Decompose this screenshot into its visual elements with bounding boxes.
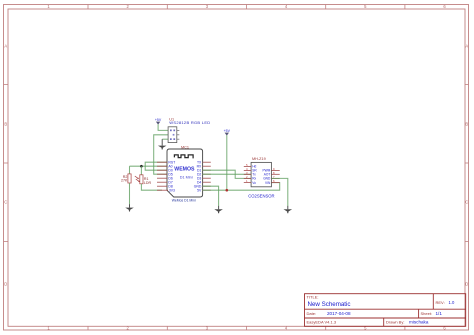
svg-text:A: A xyxy=(4,44,7,49)
wire A0 to R2 top xyxy=(129,166,131,174)
connector U1 xyxy=(168,127,179,143)
wire D1 to sensor Rx xyxy=(203,170,252,178)
svg-text:B: B xyxy=(465,122,468,127)
svg-text:D: D xyxy=(4,282,7,287)
WEMOS right pins xyxy=(203,162,211,190)
svg-text:D1 Mini: D1 Mini xyxy=(180,176,193,180)
wire D2 to sensor Tx xyxy=(203,173,252,175)
svg-text:New Schematic: New Schematic xyxy=(308,301,351,308)
wire sensor GND to ground xyxy=(271,178,287,206)
wire junction to LDR top xyxy=(140,166,142,175)
svg-text:MC1: MC1 xyxy=(181,145,189,149)
svg-text:Drawn By:: Drawn By: xyxy=(386,319,404,324)
svg-text:+5V: +5V xyxy=(155,118,162,122)
svg-text:A: A xyxy=(465,44,468,49)
svg-text:TITLE:: TITLE: xyxy=(307,295,319,300)
sensor left pins xyxy=(244,166,251,182)
title block text xyxy=(307,295,445,325)
svg-text:Vo: Vo xyxy=(252,181,256,185)
svg-text:C: C xyxy=(465,200,468,205)
power flag +5V (RGB LED) xyxy=(155,118,162,125)
MCU MC1 WEMOS D1 mini xyxy=(167,149,203,197)
svg-text:MH-Z19: MH-Z19 xyxy=(252,157,266,161)
sensor right pin numbers xyxy=(273,167,275,183)
title block xyxy=(305,294,466,327)
svg-text:WS2812B RGB LED: WS2812B RGB LED xyxy=(169,120,210,125)
svg-text:mischaka: mischaka xyxy=(409,319,429,324)
WEMOS left pins xyxy=(157,162,168,190)
node A0 junction xyxy=(140,165,143,168)
svg-text:WEMOS: WEMOS xyxy=(174,167,195,173)
wire GND wemos to ground xyxy=(203,186,219,206)
svg-text:D: D xyxy=(465,282,468,287)
photoresistor R1 xyxy=(135,175,152,185)
svg-text:B: B xyxy=(4,122,7,127)
svg-text:C: C xyxy=(4,200,7,205)
svg-text:REV:: REV: xyxy=(436,300,445,305)
svg-text:3V3: 3V3 xyxy=(169,189,175,193)
wire LDR bottom to 3V3 xyxy=(141,184,162,190)
wire 5V net xyxy=(203,183,280,191)
antenna xyxy=(174,155,193,159)
svg-text:1.0: 1.0 xyxy=(449,300,455,305)
ground (wemos) xyxy=(214,206,223,213)
svg-text:+5V: +5V xyxy=(224,129,231,133)
sensor left pin numbers xyxy=(246,163,248,183)
svg-text:2017-04-08: 2017-04-08 xyxy=(327,311,351,316)
svg-text:27K: 27K xyxy=(121,179,128,183)
wire U1 pin3 to ground xyxy=(162,138,168,140)
sensor right pins xyxy=(271,170,279,182)
wire RST-D0 loop xyxy=(145,162,167,170)
svg-text:5V: 5V xyxy=(197,189,202,193)
wire U1 pin2 to D5 xyxy=(154,135,168,174)
resistor R2 xyxy=(121,174,131,183)
ground (RGB LED) xyxy=(158,139,167,149)
wire +5V to U1 pin1 xyxy=(158,124,168,130)
svg-text:Sheet:: Sheet: xyxy=(421,311,433,316)
svg-text:LDR: LDR xyxy=(144,181,152,185)
sensor MH-Z19 xyxy=(251,162,271,186)
power flag +5V (sensor) xyxy=(224,129,231,136)
wire A0 net xyxy=(130,165,168,167)
ground (sensor) xyxy=(284,206,293,213)
svg-text:WeMos D1 Mini: WeMos D1 Mini xyxy=(172,198,196,202)
ground (R2) xyxy=(125,204,134,211)
svg-text:EasyEDA V4.1.3: EasyEDA V4.1.3 xyxy=(307,319,337,324)
svg-text:VIN: VIN xyxy=(265,181,271,185)
svg-text:CO2SENSOR: CO2SENSOR xyxy=(248,194,274,199)
wire +5V down to 5V net xyxy=(226,135,228,190)
wire R2 bottom to ground xyxy=(129,183,131,204)
node 5V junction xyxy=(226,189,229,192)
svg-text:Date:: Date: xyxy=(307,311,317,316)
svg-text:1/1: 1/1 xyxy=(436,311,443,316)
